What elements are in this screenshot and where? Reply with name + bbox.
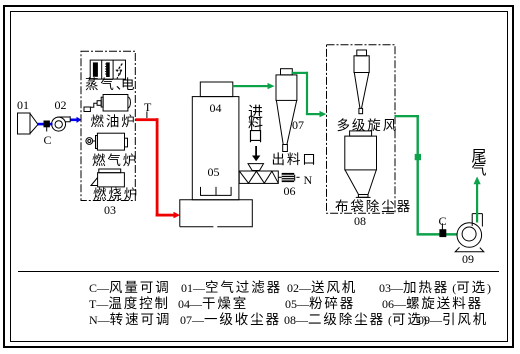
label outlet xyxy=(272,154,318,166)
multi cyclone xyxy=(354,50,369,114)
tower base xyxy=(180,200,253,227)
drying tower body xyxy=(192,97,239,200)
label N xyxy=(304,174,313,186)
screw feeder 06 xyxy=(239,171,282,183)
label C (outlet valve) xyxy=(439,215,447,227)
feed arrow xyxy=(252,146,260,161)
label 05 xyxy=(208,166,220,178)
legend row 2 xyxy=(89,298,170,310)
label bag dust collector xyxy=(335,201,412,213)
label 07 xyxy=(292,119,304,131)
label multi-stage cyclone xyxy=(337,120,399,132)
heater selection dashed box 03 xyxy=(81,51,135,200)
oil furnace xyxy=(84,95,130,112)
label 02 xyxy=(55,99,67,111)
pulverizer marks 05 xyxy=(201,187,232,196)
separator line xyxy=(18,271,499,273)
label 04 xyxy=(210,102,222,114)
wire blue inlet xyxy=(37,123,53,126)
screw motor xyxy=(282,173,300,182)
gas furnace xyxy=(86,133,128,150)
label feed inlet (vertical) xyxy=(248,107,260,143)
legend row 1 xyxy=(89,282,171,294)
label burning furnace xyxy=(93,189,139,201)
dust collector dashed box 08 xyxy=(327,45,396,214)
label T xyxy=(144,101,151,113)
legend row 3 xyxy=(89,314,171,326)
label 03 xyxy=(104,204,116,216)
bag filter xyxy=(345,131,377,198)
feed funnel xyxy=(248,164,264,171)
drying tower 04 head xyxy=(200,82,233,97)
valve C2 xyxy=(440,223,446,236)
wire green tower to cyclone xyxy=(233,83,275,89)
steam/electric box xyxy=(90,60,125,79)
label 01 xyxy=(17,99,29,111)
wire green cyclone to collector 08 xyxy=(292,72,327,118)
T sensor tick xyxy=(146,112,148,119)
label 08 xyxy=(354,215,366,227)
label steam/electric xyxy=(85,79,131,91)
fan 02 xyxy=(52,116,71,131)
label oil furnace xyxy=(91,116,137,128)
wire red hot-air duct xyxy=(135,118,180,218)
air filter 01 body xyxy=(18,113,39,134)
valve C1 xyxy=(44,121,49,132)
wire green collector to fan 09 xyxy=(395,115,458,236)
cyclone 07 xyxy=(276,69,297,152)
fan 09 xyxy=(455,214,484,252)
label gas furnace xyxy=(92,155,138,167)
wire blue arrow into heater box xyxy=(71,117,82,123)
label exhaust (vertical) xyxy=(472,150,484,177)
label 09 xyxy=(462,253,474,265)
label C (inlet valve) xyxy=(44,134,52,146)
wire green exhaust xyxy=(474,177,481,223)
label 06 xyxy=(284,185,296,197)
burning furnace xyxy=(91,169,124,187)
